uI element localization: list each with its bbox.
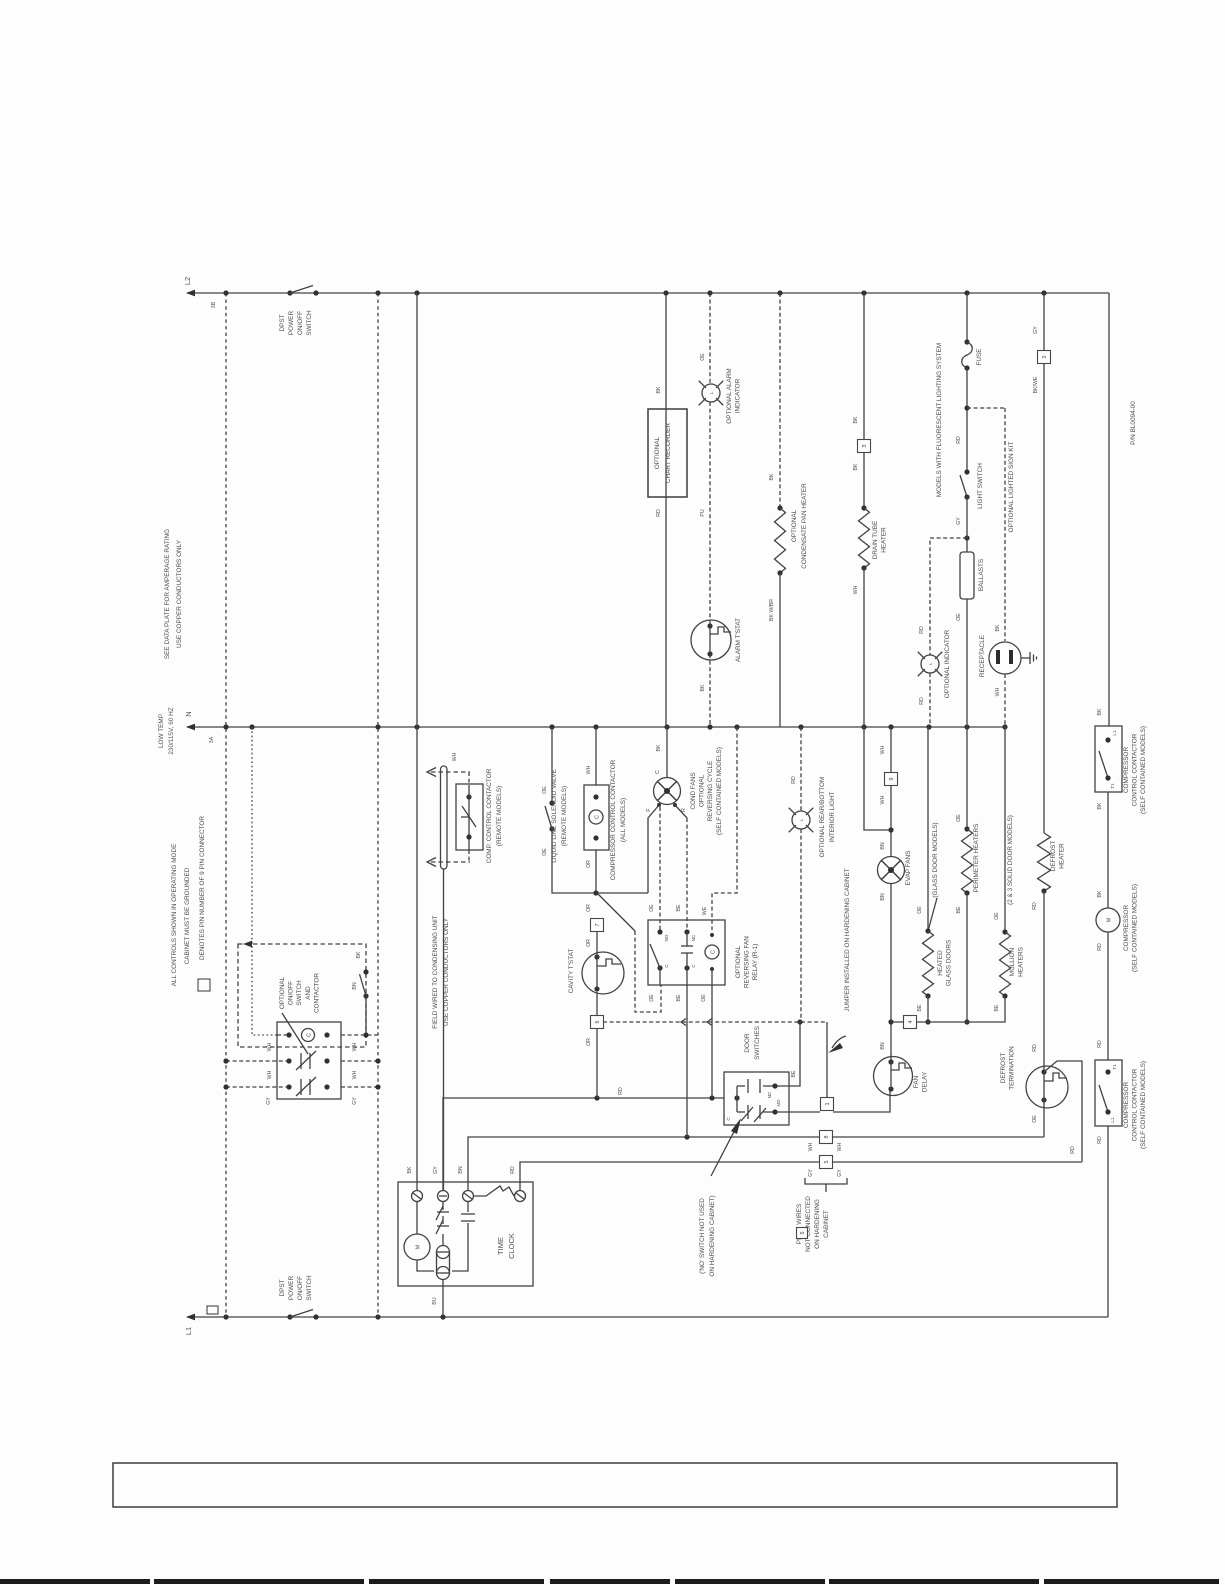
time clock terminal 2 <box>438 1191 449 1202</box>
alarm indicator lamp <box>702 384 720 402</box>
wire dashed N to relay coil <box>712 727 737 930</box>
svg-text:WH: WH <box>995 687 1001 696</box>
svg-text:BE: BE <box>917 1004 923 1011</box>
switch DPST on L2 blade <box>290 286 313 294</box>
svg-text:CONTACTOR: CONTACTOR <box>313 973 320 1013</box>
node 2 tag at L1 <box>207 1306 218 1314</box>
wire T3 riser and run y=1137 <box>468 1137 820 1190</box>
svg-text:OE: OE <box>956 613 962 621</box>
svg-text:ON HARDENING CABINET): ON HARDENING CABINET) <box>709 1195 716 1276</box>
svg-text:(SELF CONTAINED MODELS): (SELF CONTAINED MODELS) <box>716 747 723 835</box>
box compressor control contactor 1 <box>1095 726 1122 792</box>
door common fork <box>736 1086 738 1112</box>
fuse top dot <box>964 339 969 344</box>
wire N to solenoid switch <box>551 727 553 803</box>
cc-all top dot <box>593 794 598 799</box>
mullion heaters top dot <box>1002 929 1007 934</box>
svg-text:DPST: DPST <box>279 1279 286 1296</box>
svg-text:RD: RD <box>656 509 662 517</box>
svg-text:(REMOTE MODELS): (REMOTE MODELS) <box>496 786 503 846</box>
wire diagonal to reversing circuit <box>597 893 635 931</box>
svg-text:BU: BU <box>432 1297 438 1304</box>
svg-text:OPTIONAL: OPTIONAL <box>735 945 742 978</box>
switch DPST on L1 right dot <box>313 1314 318 1319</box>
svg-text:OR: OR <box>586 939 592 947</box>
svg-text:(SELF CONTAINED MODELS): (SELF CONTAINED MODELS) <box>1140 726 1147 814</box>
solenoid switch bottom dot <box>549 826 554 831</box>
wire dashed N to interior light <box>800 727 802 811</box>
wire N to coil box <box>595 727 597 785</box>
wire T4 riser and run y=1162 <box>520 1162 820 1190</box>
door NC right dot <box>772 1083 777 1088</box>
optional indicator lamp <box>921 655 939 673</box>
svg-text:BN: BN <box>352 982 358 989</box>
drain heater bottom dot <box>861 565 866 570</box>
defrost heater bottom dot <box>1041 888 1046 893</box>
junction dot N/ballast-perimeter <box>964 724 969 729</box>
junction dot L2/chart recorder <box>663 290 668 295</box>
wire light switch to ballast <box>966 497 968 552</box>
svg-text:3A: 3A <box>209 736 215 743</box>
perimeter heaters bottom dot <box>964 890 969 895</box>
svg-text:JUMPER INSTALLED ON HARDENING: JUMPER INSTALLED ON HARDENING CABINET <box>844 868 851 1011</box>
solenoid switch blade <box>545 806 552 829</box>
mullion heaters bottom dot <box>1002 993 1007 998</box>
wire dashed interior light to y1022 <box>800 829 802 1022</box>
door NC plates <box>747 1079 749 1093</box>
box contactor CO <box>277 1022 341 1099</box>
chevron on y1022 a <box>681 1019 686 1026</box>
svg-text:COMPRESSOR: COMPRESSOR <box>1123 747 1130 794</box>
svg-text:L1: L1 <box>184 1327 193 1335</box>
time clock T3 inner wire <box>452 1223 468 1271</box>
svg-text:GY: GY <box>352 1097 358 1105</box>
svg-text:LIGHT SWITCH: LIGHT SWITCH <box>977 463 984 509</box>
svg-text:BN: BN <box>880 842 886 849</box>
wire L2 to time clock T1 <box>416 293 418 1190</box>
pin square 3 drain <box>858 440 871 453</box>
time clock T3 capacitor <box>467 1202 469 1212</box>
cc-all coil <box>589 810 603 824</box>
svg-text:OE: OE <box>649 994 655 1002</box>
svg-text:OPTIONAL LIGHTED SIGN KIT: OPTIONAL LIGHTED SIGN KIT <box>1008 442 1015 533</box>
svg-text:SEE DATA PLATE FOR AMPERAGE RA: SEE DATA PLATE FOR AMPERAGE RATING <box>164 529 171 659</box>
junction dot cavity line/y1098 <box>594 1095 599 1100</box>
cc1 top dot <box>1105 737 1110 742</box>
svg-text:BK: BK <box>1097 708 1103 715</box>
wire tstat to pin6 <box>596 992 598 1016</box>
door common junction dot <box>734 1095 739 1100</box>
wire run y=1162 right part <box>832 1161 1082 1163</box>
svg-text:BN: BN <box>880 893 886 900</box>
wire dashed-dot left riser <box>225 293 227 1317</box>
svg-text:FIELD WIRED TO CONDENSING UNIT: FIELD WIRED TO CONDENSING UNIT <box>432 915 439 1028</box>
svg-text:OR: OR <box>586 860 592 868</box>
switch on/off right blade top dot <box>363 969 368 974</box>
junction dot N/relay coil feed <box>734 724 739 729</box>
svg-text:RD: RD <box>510 1166 516 1174</box>
fuse body <box>962 342 973 368</box>
svg-text:COMPRESSOR CONTROL CONTACTOR: COMPRESSOR CONTROL CONTACTOR <box>610 759 617 880</box>
svg-text:OPTIONAL ALARM: OPTIONAL ALARM <box>726 368 733 424</box>
junction dot y893 <box>593 890 598 895</box>
light switch blade <box>960 475 967 497</box>
junction dot N/evap fan feed <box>888 724 893 729</box>
box compressor control contactor 2 <box>1095 1060 1122 1126</box>
resistor perimeter heaters <box>962 829 973 893</box>
L1 arrowhead <box>186 1314 195 1321</box>
svg-text:BE: BE <box>956 906 962 913</box>
svg-text:INDICATOR: INDICATOR <box>735 378 742 413</box>
cc-all bottom dot <box>593 835 598 840</box>
switch DPST on L1 left dot <box>287 1314 292 1319</box>
door NO plates <box>747 1105 749 1119</box>
svg-text:BK: BK <box>1097 802 1103 809</box>
svg-text:BK: BK <box>769 473 775 480</box>
pin square 2 defrost <box>1038 351 1051 364</box>
heated glass doors bottom dot <box>925 993 930 998</box>
junction dot N/contactor coil branch <box>593 724 598 729</box>
pin square 6 below cavity tstat <box>591 1016 604 1029</box>
svg-text:GLASS DOORS: GLASS DOORS <box>946 940 953 987</box>
wire dashed sign kit riser <box>1004 408 1006 641</box>
cond fan stub right dot <box>673 803 677 807</box>
svg-text:WH: WH <box>352 1042 358 1051</box>
svg-text:NC: NC <box>691 934 696 941</box>
box door switches <box>724 1072 789 1125</box>
svg-text:3: 3 <box>862 445 868 448</box>
svg-text:L1: L1 <box>1110 1117 1115 1123</box>
svg-text:RD: RD <box>791 776 797 784</box>
svg-text:WE: WE <box>702 906 708 915</box>
junction dot glassdoors/y1022 <box>925 1019 930 1024</box>
svg-text:DPST: DPST <box>279 314 286 331</box>
junction dot N/interior light <box>798 724 803 729</box>
bracket pin5 note <box>805 1178 847 1184</box>
svg-text:RECEPTACLE: RECEPTACLE <box>979 635 986 677</box>
svg-text:DRAIN TUBE: DRAIN TUBE <box>872 521 879 560</box>
svg-text:9: 9 <box>889 778 895 781</box>
resistor heated glass doors <box>923 931 934 996</box>
door NO row wire right <box>763 1111 789 1113</box>
relay NC plates <box>681 945 693 947</box>
contactor contact2 right dot <box>324 1084 329 1089</box>
svg-text:WH: WH <box>267 1070 273 1079</box>
wire contact row1 right (dashed) <box>341 1060 378 1062</box>
contactor coil left dot <box>286 1032 291 1037</box>
junction dot N/dashed-right <box>375 724 380 729</box>
wire field lead lower (dashed) <box>431 861 470 863</box>
svg-text:SWITCHES: SWITCHES <box>754 1026 761 1060</box>
wire dashed L2 to condensate heater <box>779 293 781 508</box>
wire solenoid down <box>552 829 648 893</box>
svg-text:C: C <box>655 770 661 774</box>
wire pin1 to fan delay <box>833 1090 890 1112</box>
relay NO bottom dot <box>657 965 662 970</box>
svg-text:OE: OE <box>542 848 548 856</box>
svg-text:BN: BN <box>458 1166 464 1173</box>
svg-text:C: C <box>307 1033 313 1037</box>
relay coil <box>705 945 719 959</box>
light switch top dot <box>964 469 969 474</box>
box optional chart recorder <box>648 409 687 497</box>
svg-text:OR: OR <box>586 1038 592 1046</box>
page bottom scan edge <box>0 1579 1225 1584</box>
wire tstat internal <box>596 953 598 989</box>
arrowhead field upper (open) <box>427 768 436 777</box>
svg-text:WH: WH <box>808 1142 814 1151</box>
wire dashed pin6 to jumper corner <box>603 1021 827 1023</box>
pin square 1 <box>821 1098 834 1111</box>
svg-text:(SELF CONTAINED MODELS): (SELF CONTAINED MODELS) <box>1132 884 1139 972</box>
svg-text:EVAP FANS: EVAP FANS <box>905 851 912 886</box>
wire trunk down to time clock T2 <box>443 869 445 1190</box>
svg-text:COMP. CONTROL CONTACTOR: COMP. CONTROL CONTACTOR <box>486 768 493 863</box>
wire condensate to N <box>779 573 781 727</box>
svg-text:USE COPPER CONDUCTORS ONLY: USE COPPER CONDUCTORS ONLY <box>176 539 183 648</box>
svg-text:SWITCH: SWITCH <box>306 310 313 336</box>
box compressor control contactor all models <box>584 785 609 850</box>
switch DPST on L2 right dot <box>313 290 318 295</box>
svg-text:INTERIOR LIGHT: INTERIOR LIGHT <box>829 791 836 842</box>
pointer NO switch note <box>711 1122 739 1176</box>
junction dot L2/drain tube branch <box>861 290 866 295</box>
cc2 blade <box>1099 1085 1108 1112</box>
footer box <box>113 1463 1117 1507</box>
svg-text:RD: RD <box>1097 1040 1103 1048</box>
junction dot L2/sign line <box>1041 290 1046 295</box>
contactor coil right dot <box>324 1032 329 1037</box>
junction dot row1 left riser <box>223 1058 228 1063</box>
junction dot N/cond fan <box>664 724 669 729</box>
svg-text:N: N <box>184 711 193 716</box>
svg-text:RD: RD <box>1032 1044 1038 1052</box>
svg-text:DEFROST: DEFROST <box>1050 841 1057 872</box>
defrost termination top dot <box>1041 1069 1046 1074</box>
pin square 5 glyph in note <box>797 1228 808 1239</box>
junction dot L2/alarm branch <box>707 290 712 295</box>
junction dot L2/dashed-right <box>375 290 380 295</box>
door NO row wire left <box>737 1111 745 1113</box>
svg-text:ALL CONTROLS SHOWN IN OPERATIN: ALL CONTROLS SHOWN IN OPERATING MODE <box>171 844 178 987</box>
svg-text:BK: BK <box>356 951 362 958</box>
wire pin7 to tstat <box>596 931 598 953</box>
svg-text:BK/WE: BK/WE <box>1033 376 1039 393</box>
wire L1 rail <box>187 1316 1108 1318</box>
remote contactor tick <box>461 816 470 818</box>
svg-text:RD: RD <box>919 697 925 705</box>
switch on/off blade <box>360 974 367 996</box>
wire field lead upper (dashed) <box>431 771 470 773</box>
svg-text:OPTIONAL REAR/BOTTOM: OPTIONAL REAR/BOTTOM <box>819 777 826 858</box>
wire dashed indicator to N <box>929 673 931 727</box>
cable capsule to condensing unit <box>441 766 448 869</box>
receptacle body <box>989 642 1021 674</box>
relay NC bottom dot <box>684 965 689 970</box>
svg-text:HEATED: HEATED <box>937 950 944 976</box>
cond fan stub left dot <box>657 803 661 807</box>
resistor drain tube heater <box>859 508 870 568</box>
wire switch to coil row <box>365 996 367 1035</box>
chevron on y1022 b <box>707 1019 712 1026</box>
svg-text:M: M <box>416 1244 422 1249</box>
relay NC top dot <box>684 929 689 934</box>
wire dashed alarm lamp to tstat <box>709 402 711 620</box>
wire N to heated glass doors <box>927 727 929 931</box>
wire relay NC bottom lead <box>686 968 688 1137</box>
fan delay body <box>874 1057 913 1096</box>
wire door NC up to y1022 <box>789 1022 800 1086</box>
ground symbol <box>1029 652 1031 664</box>
wire fuse to light switch <box>966 368 968 472</box>
pin square 9 <box>885 773 898 786</box>
svg-text:C: C <box>726 1117 731 1121</box>
svg-text:DENOTES PIN NUMBER OF 9 PIN CO: DENOTES PIN NUMBER OF 9 PIN CONNECTOR <box>199 816 206 960</box>
svg-text:T1: T1 <box>1110 783 1115 789</box>
cavity tstat body <box>582 952 624 994</box>
cavity tstat bottom dot <box>594 986 599 991</box>
svg-text:CLOCK: CLOCK <box>507 1233 516 1259</box>
svg-text:GY: GY <box>1033 326 1039 334</box>
wire dashed reversing down <box>635 931 661 1012</box>
svg-text:(ALL MODELS): (ALL MODELS) <box>620 798 627 842</box>
time clock terminal 4 <box>515 1191 526 1202</box>
svg-text:BN: BN <box>880 1042 886 1049</box>
svg-text:7: 7 <box>595 924 601 927</box>
svg-text:C: C <box>691 964 696 968</box>
alarm tstat body <box>691 620 731 660</box>
wire compressor to cc2 <box>1107 932 1109 1060</box>
svg-text:TERMINATION: TERMINATION <box>1009 1046 1016 1090</box>
junction dot relay NC lead/y1137 <box>684 1134 689 1139</box>
junction dot relay coil/y1098 <box>709 1095 714 1100</box>
box optional on/off switch enclosure (dashed) <box>238 944 366 1047</box>
svg-text:CABINET: CABINET <box>823 1210 830 1238</box>
svg-text:OR: OR <box>586 904 592 912</box>
svg-text:WH: WH <box>837 1142 843 1151</box>
svg-text:AND: AND <box>305 986 312 1000</box>
svg-text:C: C <box>595 815 601 819</box>
svg-text:LIQUID LINE SOLENOID VALVE: LIQUID LINE SOLENOID VALVE <box>551 769 558 863</box>
svg-text:RD: RD <box>1097 1136 1103 1144</box>
junction dot L2/fluorescent branch <box>964 290 969 295</box>
svg-text:BE: BE <box>791 1070 797 1077</box>
defrost termination bottom dot <box>1041 1097 1046 1102</box>
svg-text:SWITCH: SWITCH <box>306 1275 313 1301</box>
arrowhead on enclosure top <box>243 941 252 948</box>
svg-text:OE: OE <box>917 906 923 914</box>
contactor contact2 left dot <box>286 1084 291 1089</box>
time clock terminal 3 <box>463 1191 474 1202</box>
arrowhead field lower (open) <box>427 858 436 867</box>
svg-text:WH: WH <box>880 745 886 754</box>
wire cc1 to compressor <box>1107 792 1109 908</box>
perimeter heaters top dot <box>964 826 969 831</box>
wire coil row left (dashed) <box>277 1034 289 1036</box>
wire perimeter heaters to y1022 <box>966 893 968 1022</box>
evap fan motor <box>878 857 905 884</box>
cc1 blade <box>1099 751 1108 778</box>
svg-text:3B: 3B <box>211 301 217 308</box>
contactor contact1 left dot <box>286 1058 291 1063</box>
time clock T2 contact upper <box>442 1202 444 1210</box>
wire dashed receptacle to N <box>1004 674 1006 727</box>
svg-text:(SELF CONTAINED MODELS): (SELF CONTAINED MODELS) <box>1140 1061 1147 1149</box>
svg-text:RD: RD <box>618 1087 624 1095</box>
jumper pointer arrow <box>832 1036 846 1048</box>
svg-text:NC: NC <box>767 1091 772 1098</box>
junction dot row1 right riser <box>375 1058 380 1063</box>
wire L2 to fuse <box>966 293 968 342</box>
contactor coil <box>302 1029 315 1042</box>
svg-text:OE: OE <box>700 353 706 361</box>
svg-text:GY: GY <box>266 1097 272 1105</box>
svg-text:CABINET MUST BE GROUNDED: CABINET MUST BE GROUNDED <box>184 867 191 964</box>
cc2 bottom dot <box>1105 1109 1110 1114</box>
svg-text:BE: BE <box>676 904 682 911</box>
junction dot sign kit tap <box>964 405 969 410</box>
cc1 bottom dot <box>1105 775 1110 780</box>
cond fan motor <box>654 778 681 805</box>
wire coil to junction <box>595 850 597 893</box>
defrost termination body <box>1026 1066 1068 1108</box>
svg-text:GY: GY <box>433 1166 439 1174</box>
svg-text:POWER: POWER <box>288 1276 295 1301</box>
svg-text:6: 6 <box>595 1021 601 1024</box>
svg-text:CONTROL CONTACTOR: CONTROL CONTACTOR <box>1132 733 1139 806</box>
svg-text:L: L <box>799 818 804 821</box>
pin square 7 above cavity tstat <box>591 919 604 932</box>
svg-text:CHART RECORDER: CHART RECORDER <box>665 423 672 484</box>
alarm tstat internal wire <box>709 620 711 654</box>
svg-text:BK: BK <box>656 744 662 751</box>
svg-text:HEATERS: HEATERS <box>1018 947 1025 977</box>
svg-text:POWER: POWER <box>288 311 295 336</box>
door NC row wire left <box>737 1085 745 1087</box>
svg-text:CONTROL CONTACTOR: CONTROL CONTACTOR <box>1132 1068 1139 1141</box>
time clock terminal 1 <box>412 1191 423 1202</box>
wire N rail <box>187 726 1005 728</box>
svg-text:DOOR: DOOR <box>744 1033 751 1053</box>
switch DPST on L2 left dot <box>287 290 292 295</box>
wire drain heater to N <box>863 568 865 727</box>
time clock motor <box>404 1234 430 1260</box>
wire y1022 right run <box>891 1021 967 1023</box>
wire contact row2 right (dashed) <box>341 1086 378 1088</box>
drain heater top dot <box>861 505 866 510</box>
svg-text:CONDENSATE PAN HEATER: CONDENSATE PAN HEATER <box>801 483 808 569</box>
light switch bottom dot <box>964 494 969 499</box>
defrost termination internal wire <box>1043 1066 1045 1100</box>
time clock T2 to coil wire <box>442 1234 444 1246</box>
svg-text:5: 5 <box>800 1232 806 1235</box>
junction dot L2/condensate branch <box>777 290 782 295</box>
wire relay coil to door switches <box>711 969 713 1098</box>
wire L2 to pin2 <box>1043 293 1045 351</box>
svg-text:BK: BK <box>995 624 1001 631</box>
pin square 8 on y1137 <box>820 1131 833 1144</box>
svg-text:BK: BK <box>700 684 706 691</box>
svg-text:PERIMETER HEATERS: PERIMETER HEATERS <box>973 824 980 893</box>
svg-text:L: L <box>928 662 933 665</box>
svg-text:GY: GY <box>956 517 962 525</box>
wire N to pin9 <box>890 727 892 772</box>
svg-text:BK: BK <box>853 416 859 423</box>
wire pin2 to defrost heater <box>1043 363 1045 833</box>
time clock motor wire <box>416 1202 418 1234</box>
junction dot evap/y1022 <box>888 1019 893 1024</box>
fan delay internal wire <box>890 1058 892 1089</box>
